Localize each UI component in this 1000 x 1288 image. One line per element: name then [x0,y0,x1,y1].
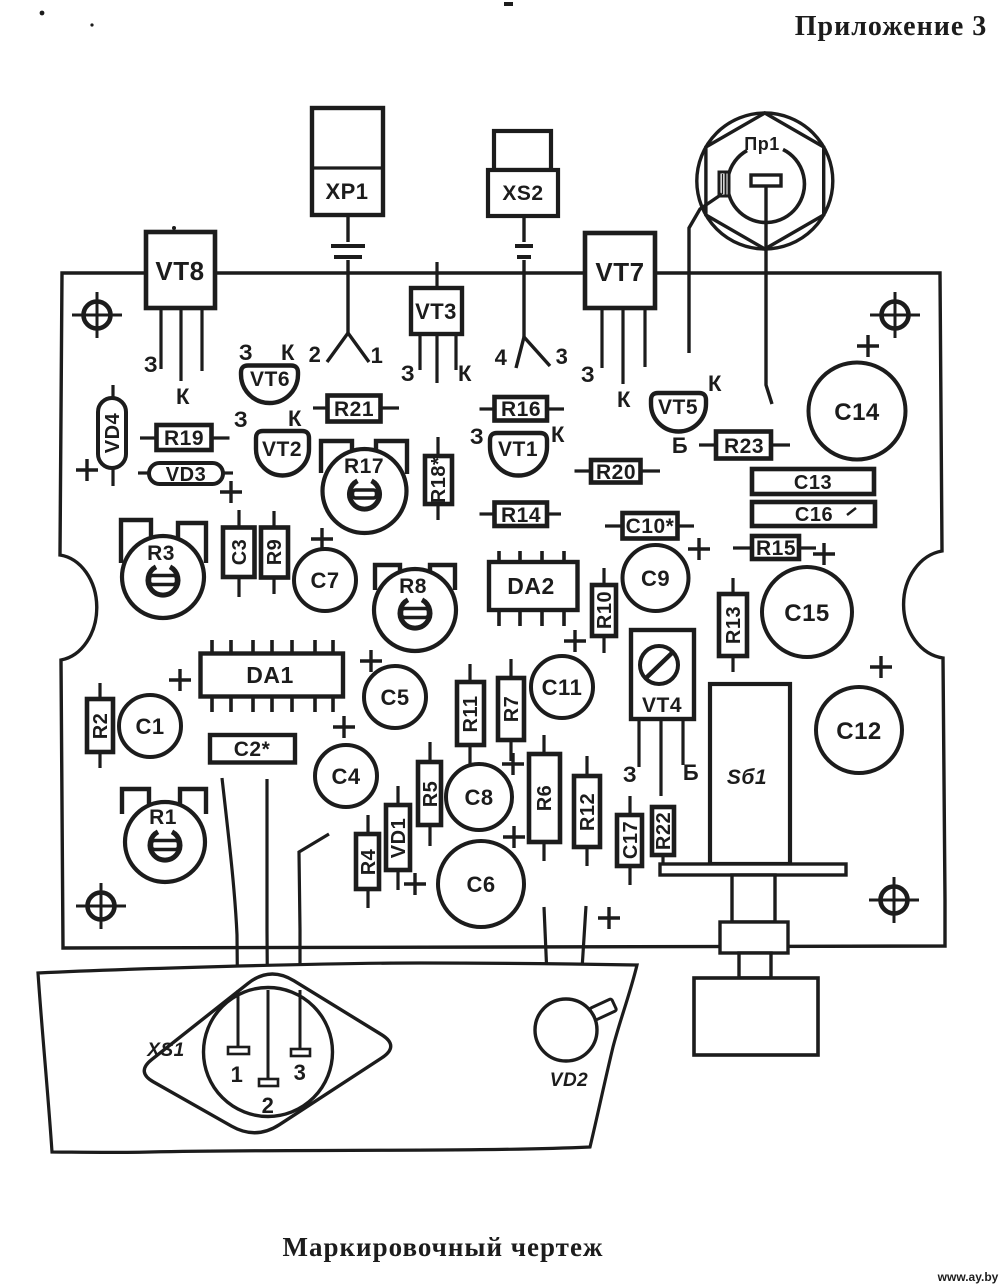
diode VD3 [138,463,233,486]
svg-text:C17: C17 [620,821,642,859]
scan speck 3 [504,2,513,6]
svg-text:DA2: DA2 [507,573,555,599]
svg-text:2: 2 [262,1093,275,1118]
wire to XS1 pin 2 [267,779,268,1078]
wire VT8 leg 2 [179,308,182,381]
svg-text:XS1: XS1 [146,1040,184,1061]
resistor R18* [425,437,452,520]
connector XP1 [312,108,383,215]
polarity mark near VD4 [76,459,98,481]
transistor VT1 [470,422,565,476]
pushbutton SB1 bushing [720,922,788,953]
capacitor C6 [438,841,524,927]
svg-text:C2*: C2* [234,738,271,761]
wire fuse left lead [689,194,722,353]
capacitor C15 [762,567,852,657]
resistor R9 [261,511,288,594]
svg-text:К: К [551,422,565,447]
svg-text:C13: C13 [794,472,832,494]
fuse holder Pr1 inner circle [727,150,804,223]
resistor R6 [529,735,560,861]
resistor R5 [418,742,442,846]
svg-text:R22: R22 [653,812,675,850]
wire VT3 leg 3 [454,334,457,370]
wire VT7 leg 1 [600,308,603,368]
diode VD2 [535,998,617,1091]
svg-text:К: К [281,340,295,365]
svg-text:3: 3 [556,344,569,369]
svg-text:R16: R16 [501,398,541,421]
svg-text:З: З [144,352,158,377]
wire VT8 leg 3 [200,308,203,371]
scan speck 1 [40,11,45,16]
svg-text:VT7: VT7 [595,257,644,287]
svg-text:4: 4 [495,345,508,370]
svg-text:C9: C9 [641,566,670,591]
svg-text:VT4: VT4 [642,694,682,717]
fuse contact block [719,172,729,196]
capacitor C5 [364,666,426,728]
transistor VT6 [239,340,298,403]
pushbutton SB1 flange [660,864,846,875]
svg-text:C10*: C10* [626,515,675,538]
svg-text:R15: R15 [756,537,796,560]
polarity mark below DA2 [564,630,586,652]
wire XS2 stem with capacitor gap [515,216,550,368]
mounting hole top-left [72,292,122,338]
capacitor C17 [617,796,642,885]
capacitor C12 [816,687,902,773]
capacitor C7 [294,549,356,611]
resistor R13 [719,578,747,672]
capacitor C13 [752,469,874,494]
transistor VT2 [234,406,309,475]
svg-text:R4: R4 [358,848,380,875]
svg-text:К: К [708,371,722,396]
svg-text:C6: C6 [466,872,495,897]
svg-text:Б: Б [683,760,699,785]
resistor R12 [574,756,600,866]
wire XS1 pin1 inside [228,990,249,1054]
pushbutton SB1 stem [739,953,771,978]
polarity mark near C7 [311,528,333,550]
svg-text:Приложение 3: Приложение 3 [795,11,988,42]
capacitor C1 [119,695,181,757]
svg-text:C11: C11 [542,675,583,700]
pushbutton SB1 shaft [732,875,775,922]
svg-text:R18*: R18* [428,457,450,503]
svg-text:R21: R21 [334,398,374,421]
polarity mark near C11 [502,753,524,775]
wire VT3 leg 1 [418,334,421,370]
resistor R23 [699,432,790,459]
wire to XS1 pin 1 [222,778,238,1046]
svg-text:R11: R11 [460,695,482,732]
transistor VT4 [631,630,694,719]
svg-text:R6: R6 [534,785,556,812]
svg-text:VT1: VT1 [498,438,538,461]
svg-text:К: К [617,387,631,412]
resistor R11 [457,664,484,768]
diode VD4 [98,385,126,486]
polarity mark near C12 [870,656,892,678]
wire VT3 leg 2 [435,334,438,383]
connector XS2 [488,131,558,216]
svg-text:VT3: VT3 [415,299,457,324]
svg-text:3: 3 [294,1060,307,1085]
resistor R7 [498,659,524,761]
svg-text:1: 1 [371,343,384,368]
svg-text:R13: R13 [723,606,745,644]
polarity mark near VD3 [220,481,242,503]
fuse element bar [751,175,781,186]
fuse holder Pr1 outer circle [697,113,833,249]
svg-text:C1: C1 [135,714,164,739]
capacitor C8 [446,764,512,830]
transistor VT7 [585,233,655,308]
diode VD1 [386,786,410,890]
polarity mark near C6 [404,873,426,895]
resistor R22 [652,807,675,872]
transistor VT5 [651,371,722,458]
svg-text:C8: C8 [464,785,493,810]
wire XS1 pin3 inside [291,990,310,1056]
svg-text:R5: R5 [420,781,442,808]
resistor R21 [313,396,399,422]
pushbutton SB1 body [710,684,790,864]
svg-text:XP1: XP1 [325,179,368,204]
svg-text:VD2: VD2 [550,1070,588,1091]
wire to XS1 pin 3 [299,834,329,1048]
svg-text:Маркировочный чертеж: Маркировочный чертеж [282,1232,603,1262]
polarity mark near C8 [503,826,525,848]
front panel outline [38,963,637,1152]
svg-text:R17: R17 [344,455,384,478]
svg-text:R23: R23 [724,435,764,458]
capacitor C16 [752,502,875,526]
svg-text:DA1: DA1 [246,662,294,688]
wire to VD2 left [544,907,548,999]
svg-text:R2: R2 [90,713,112,740]
svg-text:C14: C14 [834,399,880,426]
svg-text:R7: R7 [501,696,523,723]
polarity mark near R15 [813,543,835,565]
svg-text:К: К [458,361,472,386]
capacitor C9 [623,545,689,611]
polarity mark near VD2 wires [598,907,620,929]
wire VT4 leg 2 [659,719,662,796]
svg-text:R14: R14 [501,504,541,527]
wire VT3 top lead [435,262,438,288]
wire VT4 leg 1 [637,719,640,767]
polarity mark near C9 [688,538,710,560]
mounting hole top-right [870,292,920,338]
svg-text:З: З [239,340,253,365]
svg-text:R20: R20 [596,461,636,484]
capacitor C11 [531,656,593,718]
svg-text:C12: C12 [836,718,882,745]
wire VT7 leg 3 [643,308,646,367]
connector XS1 circle [204,988,333,1117]
polarity mark near C14 [857,335,879,357]
svg-text:R9: R9 [264,539,286,566]
svg-text:Sб1: Sб1 [727,766,767,789]
svg-text:З: З [234,407,248,432]
polarity mark near C5 [360,650,382,672]
wire fuse right lead [766,186,772,404]
trimmer resistor R17 [321,441,407,533]
mounting hole bottom-left [76,883,126,929]
pushbutton SB1 knob [694,978,818,1055]
svg-text:2: 2 [309,342,322,367]
svg-text:C4: C4 [331,764,360,789]
resistor R16 [480,397,565,421]
op-amp DA1 [201,640,344,712]
wire VT7 leg 2 [621,308,624,384]
svg-text:R10: R10 [594,591,616,629]
svg-text:www.ay.by: www.ay.by [937,1270,999,1284]
resistor R19 [140,425,230,450]
svg-text:R12: R12 [577,793,599,831]
wire to VD2 right [580,906,586,1001]
transistor VT8 [146,232,215,308]
scan speck 4 [172,226,176,230]
wire XS1 pin2 inside [259,990,278,1086]
polarity mark near C4 [333,716,355,738]
capacitor C10* [605,513,694,539]
svg-text:VT6: VT6 [250,368,290,391]
svg-text:R19: R19 [164,427,204,450]
svg-text:З: З [623,762,637,787]
svg-text:Пр1: Пр1 [744,134,779,154]
trimmer resistor R1 [122,789,206,882]
resistor R10 [592,568,616,653]
svg-text:VT2: VT2 [262,438,302,461]
svg-text:К: К [288,406,302,431]
resistor R14 [480,503,562,528]
svg-text:З: З [470,424,484,449]
svg-text:1: 1 [231,1062,244,1087]
svg-text:C7: C7 [310,568,339,593]
board outline [60,273,945,948]
capacitor C3 [223,510,255,597]
connector XS1 outline [144,974,390,1133]
resistor R15 [733,536,816,560]
capacitor C4 [315,745,377,807]
transistor VT3 [411,288,462,334]
svg-text:C16: C16 [795,504,833,526]
svg-text:VT5: VT5 [658,396,698,419]
capacitor C2* [210,735,295,763]
svg-text:C15: C15 [784,600,830,627]
svg-text:VT8: VT8 [155,256,204,286]
polarity mark near C1 [169,669,191,691]
capacitor C14 [809,363,906,460]
resistor R20 [575,460,661,484]
svg-text:C3: C3 [229,539,251,566]
op-amp DA2 [489,551,578,626]
svg-text:XS2: XS2 [502,182,543,205]
svg-text:R8: R8 [399,575,427,598]
svg-text:VD3: VD3 [166,464,206,486]
svg-text:R1: R1 [149,806,177,829]
mounting hole bottom-right [869,877,919,923]
svg-text:З: З [581,362,595,387]
trimmer resistor R8 [374,565,456,651]
scan speck 2 [90,23,93,26]
svg-text:C5: C5 [380,685,409,710]
fuse holder Pr1 hexagon [706,113,824,249]
svg-text:Б: Б [672,433,688,458]
speck in C16 [847,508,856,515]
svg-text:З: З [401,361,415,386]
wire VT8 leg 1 [159,308,162,369]
svg-text:R3: R3 [147,542,175,565]
resistor R4 [356,815,380,908]
wire XP1 stem with capacitor gap [327,215,369,362]
svg-text:VD4: VD4 [102,412,124,453]
trimmer resistor R3 [121,520,206,618]
svg-text:К: К [176,384,190,409]
svg-text:VD1: VD1 [388,818,410,858]
resistor R2 [87,683,113,768]
wire VT4 leg 3 [681,719,684,765]
